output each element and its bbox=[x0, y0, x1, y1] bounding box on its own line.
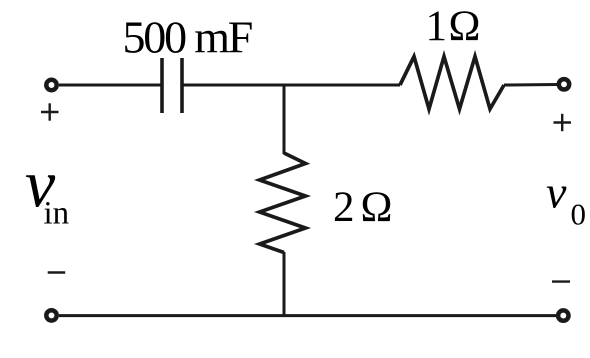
svg-text:2Ω: 2Ω bbox=[333, 184, 398, 231]
terminal top-right bbox=[559, 79, 569, 89]
svg-text:in: in bbox=[44, 196, 70, 232]
node label vin bbox=[25, 146, 69, 232]
svg-text:1Ω: 1Ω bbox=[426, 3, 482, 50]
wire: bottom rail between terminals bbox=[59, 314, 557, 317]
plus sign (vin polarity) bbox=[41, 103, 59, 120]
svg-text:v: v bbox=[546, 167, 567, 218]
terminal top-left bbox=[46, 80, 56, 90]
minus sign (v0 polarity) bbox=[552, 280, 570, 282]
terminal bottom-left bbox=[46, 310, 56, 320]
capacitor C1 (500 mF) bbox=[162, 58, 182, 113]
plus sign (v0 polarity) bbox=[554, 114, 572, 131]
node label v0 bbox=[546, 167, 586, 232]
svg-text:500 mF: 500 mF bbox=[123, 12, 252, 63]
resistor R2 (2 ohm, vertical) bbox=[260, 153, 306, 253]
resistor R1 (1 ohm) bbox=[400, 57, 504, 110]
minus sign (vin polarity) bbox=[48, 271, 65, 273]
wire: top-left terminal to C1 bbox=[59, 84, 162, 87]
wire: R1 to top-right terminal bbox=[504, 83, 557, 87]
wire: top node junction down to R2 bbox=[283, 84, 286, 154]
terminal bottom-right bbox=[558, 310, 568, 320]
svg-text:0: 0 bbox=[571, 196, 587, 231]
wire: R2 down to bottom node junction bbox=[283, 252, 286, 316]
wire: C1 through top node junction to R1 bbox=[182, 84, 400, 87]
